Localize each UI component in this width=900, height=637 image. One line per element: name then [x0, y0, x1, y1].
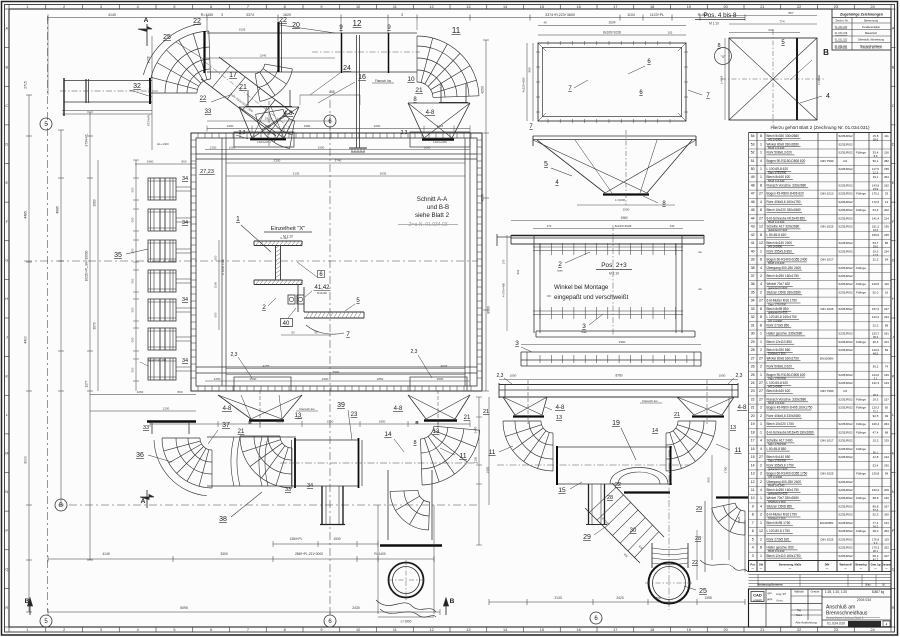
- svg-text:209: 209: [884, 488, 889, 492]
- support beam above funnels: [497, 373, 743, 398]
- svg-text:Benennung, Maße: Benennung, Maße: [779, 563, 802, 567]
- svg-text:Übersicht, Abmessung: Übersicht, Abmessung: [858, 38, 885, 42]
- svg-text:167: 167: [884, 505, 889, 509]
- roof curb top-right: [410, 132, 470, 147]
- svg-text:22: 22: [797, 628, 801, 632]
- svg-text:8: 8: [760, 315, 762, 319]
- svg-text:24: 24: [343, 65, 351, 72]
- svg-text:34,2: 34,2: [873, 525, 879, 529]
- svg-text:16: 16: [577, 5, 581, 9]
- panel pos 2+3 side angles: [534, 235, 682, 333]
- svg-text:500: 500: [131, 187, 135, 192]
- svg-text:2470: 2470: [474, 426, 478, 433]
- svg-text:8: 8: [760, 258, 762, 262]
- svg-text:162: 162: [884, 184, 889, 188]
- label pos 35: [114, 249, 148, 259]
- svg-text:4-8: 4-8: [426, 110, 435, 116]
- svg-text:N: N: [5, 490, 8, 494]
- svg-text:2135: 2135: [293, 172, 300, 176]
- svg-text:1177: 1177: [85, 380, 89, 387]
- svg-text:lose: lose: [557, 269, 563, 273]
- svg-text:E: E: [6, 181, 9, 185]
- svg-text:2500: 2500: [250, 377, 257, 381]
- svg-text:4: 4: [760, 488, 762, 492]
- svg-text:1960: 1960: [147, 160, 154, 164]
- funnel pos 4-8 top-left: [236, 101, 299, 146]
- svg-text:865: 865: [329, 90, 335, 94]
- svg-text:1: 1: [760, 249, 762, 253]
- svg-text:4: 4: [760, 505, 762, 509]
- svg-text:S235JRG2: S235JRG2: [838, 480, 853, 484]
- svg-text:Füllinge: Füllinge: [856, 208, 866, 212]
- svg-text:8760: 8760: [615, 374, 622, 378]
- svg-text:99: 99: [885, 472, 889, 476]
- duct elbow pos 14 turning down: [384, 426, 479, 530]
- svg-text:68,3: 68,3: [873, 554, 879, 558]
- svg-text:4+570=480: 4+570=480: [502, 282, 506, 297]
- svg-text:2500: 2500: [277, 420, 284, 424]
- svg-text:1424+R60: 1424+R60: [433, 140, 447, 144]
- svg-text:1980: 1980: [304, 124, 311, 128]
- svg-text:25: 25: [699, 588, 707, 595]
- svg-text:Füllinge: Füllinge: [856, 447, 866, 451]
- svg-text:13: 13: [466, 628, 470, 632]
- horizontal round duct pos 37/38: [207, 422, 296, 523]
- svg-text:eingepaßt und verschweißt: eingepaßt und verschweißt: [554, 294, 629, 301]
- funnel pos 4-8 top-right body: [401, 103, 470, 140]
- svg-text:774: 774: [779, 19, 784, 23]
- svg-text:4: 4: [137, 5, 139, 9]
- svg-text:21: 21: [674, 412, 680, 418]
- building plan outer wall: [191, 133, 482, 391]
- svg-text:41: 41: [751, 241, 755, 245]
- svg-text:43: 43: [751, 225, 755, 229]
- svg-text:11: 11: [459, 453, 466, 460]
- svg-text:45: 45: [751, 208, 755, 212]
- svg-text:6960: 6960: [333, 370, 340, 374]
- svg-text:260: 260: [884, 513, 889, 517]
- svg-text:DIN 7990: DIN 7990: [820, 159, 833, 163]
- svg-text:3: 3: [100, 628, 102, 632]
- svg-text:1: 1: [760, 496, 762, 500]
- svg-text:S235JRG2: S235JRG2: [838, 521, 853, 525]
- svg-text:24: 24: [751, 381, 755, 385]
- svg-text:A: A: [144, 17, 149, 24]
- svg-text:500: 500: [131, 307, 135, 312]
- svg-text:500: 500: [131, 367, 135, 372]
- svg-text:2,3: 2,3: [411, 349, 418, 355]
- svg-text:1690: 1690: [424, 145, 431, 149]
- svg-text:3200: 3200: [274, 159, 281, 163]
- svg-text:Bogen 45-R800-D406 620: Bogen 45-R800-D406 620: [767, 192, 804, 196]
- svg-text:Einzelheit "X": Einzelheit "X": [271, 226, 306, 232]
- svg-text:M 1:10: M 1:10: [609, 272, 619, 276]
- svg-text:3: 3: [582, 323, 586, 330]
- svg-text:Füllinge: Füllinge: [856, 291, 866, 295]
- section marker B bottom-right: [444, 598, 455, 615]
- right detail funnel left: [503, 380, 565, 424]
- svg-text:19: 19: [612, 420, 620, 427]
- svg-text:1905: 1905: [265, 117, 272, 121]
- svg-text:36,3: 36,3: [873, 393, 879, 397]
- svg-text:117,5: 117,5: [872, 167, 879, 171]
- svg-text:500: 500: [131, 337, 135, 342]
- svg-text:77,4: 77,4: [873, 521, 879, 525]
- svg-text:Ausschnitt 300: Ausschnitt 300: [148, 358, 167, 362]
- svg-text:A: A: [892, 27, 895, 31]
- svg-text:101: 101: [884, 340, 889, 344]
- hanger rod pos 12: [349, 35, 367, 152]
- svg-text:Blech 12x110 850: Blech 12x110 850: [767, 340, 793, 344]
- svg-text:25: 25: [751, 373, 755, 377]
- svg-text:29: 29: [696, 506, 702, 512]
- svg-text:Blech 8x160 620: Blech 8x160 620: [767, 389, 791, 393]
- svg-text:264: 264: [884, 422, 889, 426]
- svg-text:17,5: 17,5: [873, 253, 879, 257]
- svg-text:8000: 8000: [487, 306, 491, 314]
- duct stub into top-left funnel: [246, 90, 292, 107]
- vertical drop duct pos 34 below: [307, 483, 345, 525]
- svg-text:15: 15: [540, 628, 544, 632]
- svg-text:1: 1: [760, 340, 762, 344]
- svg-text:H: H: [892, 297, 895, 301]
- svg-text:S235JRG2: S235JRG2: [838, 455, 853, 459]
- svg-text:DIN 1017: DIN 1017: [820, 258, 833, 262]
- svg-text:157: 157: [884, 398, 889, 402]
- svg-text:2500: 2500: [623, 208, 630, 212]
- svg-text:13: 13: [466, 5, 470, 9]
- svg-text:28: 28: [607, 495, 613, 501]
- svg-text:Stk: Stk: [759, 563, 764, 567]
- svg-text:8: 8: [284, 628, 286, 632]
- svg-text:4140: 4140: [108, 13, 116, 17]
- bottom wall funnel left (pos 4-8): [218, 390, 302, 435]
- svg-text:1500: 1500: [318, 145, 325, 149]
- svg-text:12: 12: [430, 628, 434, 632]
- svg-text:85: 85: [885, 241, 889, 245]
- freeform break line bottom-left outlet: [376, 600, 436, 617]
- svg-text:Bl.: Bl.: [882, 583, 885, 587]
- corner elbow far right: [700, 498, 748, 573]
- svg-text:3: 3: [221, 13, 223, 17]
- svg-text:S235JRG2: S235JRG2: [838, 184, 853, 188]
- svg-text:P: P: [892, 529, 895, 533]
- svg-text:4: 4: [760, 266, 762, 270]
- svg-text:157,0: 157,0: [872, 307, 880, 311]
- svg-text:52: 52: [751, 151, 755, 155]
- svg-text:S235JRG2: S235JRG2: [838, 430, 853, 434]
- svg-text:10: 10: [356, 5, 360, 9]
- svg-text:36: 36: [136, 452, 144, 459]
- svg-text:Hierzu gehört Blatt 2 (Zeichnu: Hierzu gehört Blatt 2 (Zeichnung Nr. 01.…: [770, 125, 870, 130]
- svg-text:1: 1: [760, 373, 762, 377]
- svg-text:10: 10: [751, 496, 755, 500]
- dimension lines bottom-left assembly: [48, 537, 440, 624]
- svg-text:22: 22: [279, 17, 287, 24]
- svg-text:Flansch los: Flansch los: [642, 399, 658, 403]
- grid axis 5 (vertical dashed): [40, 16, 52, 627]
- svg-text:85,8: 85,8: [873, 505, 879, 509]
- svg-text:Bogen 90-R1150-D508 620: Bogen 90-R1150-D508 620: [767, 159, 806, 163]
- svg-text:92,5: 92,5: [873, 414, 879, 418]
- svg-text:15,8: 15,8: [873, 134, 879, 138]
- svg-text:1123+PL: 1123+PL: [650, 13, 664, 17]
- svg-text:Halter geschw. 330x2680: Halter geschw. 330x2680: [767, 332, 803, 336]
- svg-text:56,1: 56,1: [873, 450, 879, 454]
- svg-text:12,8: 12,8: [873, 455, 879, 459]
- svg-text:Rohr 406x5,6 160x1750: Rohr 406x5,6 160x1750: [767, 200, 801, 204]
- svg-text:52,3: 52,3: [873, 513, 879, 517]
- svg-text:7: 7: [247, 628, 249, 632]
- svg-text:Blech 10x220 1750: Blech 10x220 1750: [767, 422, 795, 426]
- svg-text:1060: 1060: [137, 390, 144, 394]
- left vertical dimension chains: [24, 36, 197, 612]
- svg-text:5740: 5740: [335, 159, 342, 163]
- note Ausschnitt 300: [140, 358, 167, 366]
- svg-text:146: 146: [884, 496, 889, 500]
- svg-text:1850: 1850: [377, 377, 384, 381]
- svg-text:Flansch los: Flansch los: [375, 79, 392, 83]
- svg-text:14: 14: [503, 5, 507, 9]
- svg-text:800: 800: [707, 477, 711, 482]
- svg-text:27: 27: [759, 381, 763, 385]
- labels pos 34: [182, 176, 188, 364]
- svg-text:24: 24: [871, 628, 875, 632]
- svg-text:S235JRG2: S235JRG2: [838, 373, 853, 377]
- svg-text:37: 37: [751, 274, 755, 278]
- svg-text:65x8 L=1240: 65x8 L=1240: [768, 483, 785, 487]
- svg-text:120,3: 120,3: [872, 406, 880, 410]
- svg-text:36,2: 36,2: [873, 335, 879, 339]
- svg-text:23: 23: [351, 412, 358, 418]
- svg-text:22: 22: [751, 398, 755, 402]
- svg-text:5: 5: [173, 5, 175, 9]
- svg-text:65x8 L=1240: 65x8 L=1240: [768, 261, 785, 265]
- svg-text:15: 15: [558, 487, 566, 494]
- svg-text:2: 2: [760, 348, 762, 352]
- svg-text:2: 2: [760, 274, 762, 278]
- dimension between top funnels: [300, 90, 360, 105]
- svg-text:3: 3: [515, 340, 519, 347]
- detail X I-beam column: [254, 236, 303, 285]
- svg-text:"X": "X": [721, 55, 726, 59]
- svg-text:500: 500: [131, 217, 135, 222]
- svg-text:34: 34: [182, 358, 188, 364]
- svg-text:Füllinge: Füllinge: [856, 430, 866, 434]
- svg-text:01.034.032: 01.034.032: [835, 26, 848, 29]
- title Pos. 4 bis 8: [695, 12, 745, 26]
- svg-text:31: 31: [751, 323, 755, 327]
- bottom dimension row under wall: [150, 420, 470, 427]
- svg-text:140,6: 140,6: [872, 348, 880, 352]
- svg-text:96,1: 96,1: [873, 159, 879, 163]
- svg-text:Stgn.1750/300: Stgn.1750/300: [768, 442, 787, 446]
- svg-text:DIN 1025: DIN 1025: [820, 537, 833, 541]
- svg-text:40: 40: [751, 249, 755, 253]
- svg-text:Gesamt: Gesamt: [882, 563, 892, 567]
- svg-text:22,2: 22,2: [873, 258, 879, 262]
- svg-text:1384+PL: 1384+PL: [290, 537, 303, 541]
- svg-text:Pos: Pos: [750, 563, 755, 567]
- svg-text:C: C: [892, 104, 895, 108]
- svg-text:DIN 1017: DIN 1017: [820, 439, 833, 443]
- svg-text:23: 23: [834, 628, 838, 632]
- svg-text:65x8 L=1240: 65x8 L=1240: [768, 549, 785, 553]
- svg-text:L=4000: L=4000: [615, 198, 625, 202]
- svg-text:74: 74: [885, 365, 889, 369]
- svg-text:Füllinge: Füllinge: [856, 406, 866, 410]
- duct elbow pos 11: [372, 26, 479, 103]
- svg-text:13: 13: [751, 472, 755, 476]
- svg-text:Füllinge: Füllinge: [856, 282, 866, 286]
- svg-text:64,6: 64,6: [873, 208, 879, 212]
- svg-text:8: 8: [760, 546, 762, 550]
- svg-text:C: C: [5, 104, 8, 108]
- svg-text:4-8: 4-8: [394, 406, 403, 412]
- svg-text:28,6: 28,6: [873, 138, 879, 142]
- drop shoe flange: [615, 482, 670, 493]
- svg-text:P: P: [6, 529, 9, 533]
- duct elbow pos 24/16: [255, 64, 366, 148]
- svg-text:G: G: [5, 258, 8, 262]
- svg-text:L 120-80-8 1750: L 120-80-8 1750: [767, 529, 791, 533]
- svg-text:IL 8440,1300: IL 8440,1300: [221, 258, 225, 275]
- svg-text:4: 4: [137, 628, 139, 632]
- svg-text:1428: 1428: [147, 56, 151, 63]
- svg-text:CAD: CAD: [753, 593, 762, 598]
- svg-text:1528: 1528: [239, 28, 246, 32]
- svg-text:2849+PL,221+3000: 2849+PL,221+3000: [295, 552, 323, 556]
- svg-text:Füllinge: Füllinge: [856, 422, 866, 426]
- svg-text:33: 33: [143, 425, 149, 431]
- detail Einzelheit X title: [264, 226, 312, 239]
- svg-text:4485: 4485: [24, 211, 28, 219]
- svg-text:38: 38: [751, 266, 755, 270]
- svg-text:S235JRG2: S235JRG2: [838, 282, 853, 286]
- svg-text:1: 1: [760, 151, 762, 155]
- svg-text:B: B: [823, 48, 829, 57]
- svg-text:S235JRG2: S235JRG2: [838, 398, 853, 402]
- svg-text:500: 500: [131, 278, 135, 283]
- svg-text:151,2: 151,2: [872, 225, 880, 229]
- svg-text:8: 8: [760, 208, 762, 212]
- svg-text:Rohr 273x5 850: Rohr 273x5 850: [767, 323, 790, 327]
- svg-text:S235JRG2: S235JRG2: [838, 505, 853, 509]
- svg-text:4: 4: [760, 439, 762, 443]
- svg-text:1024: 1024: [608, 21, 615, 25]
- svg-text:34: 34: [182, 297, 188, 303]
- svg-text:17: 17: [229, 72, 237, 79]
- svg-text:21: 21: [238, 429, 245, 435]
- svg-text:123,2: 123,2: [872, 315, 880, 319]
- svg-text:23: 23: [751, 389, 755, 393]
- svg-text:2,3: 2,3: [497, 373, 504, 379]
- svg-text:E: E: [892, 181, 895, 185]
- svg-text:DIN 7990: DIN 7990: [820, 389, 833, 393]
- svg-text:34: 34: [182, 220, 188, 226]
- svg-text:M16x60: M16x60: [317, 291, 327, 295]
- svg-text:2133: 2133: [554, 596, 562, 600]
- svg-text:J: J: [892, 336, 894, 340]
- svg-text:4.6: 4.6: [843, 389, 848, 393]
- svg-text:20: 20: [724, 628, 728, 632]
- svg-text:136: 136: [884, 225, 889, 229]
- svg-text:EN10056-: EN10056-: [820, 356, 834, 360]
- svg-text:1060: 1060: [227, 124, 234, 128]
- svg-text:962: 962: [516, 269, 520, 274]
- svg-text:8x106=1028: 8x106=1028: [603, 31, 621, 35]
- svg-text:2: 2: [760, 365, 762, 369]
- svg-text:980: 980: [528, 67, 532, 72]
- svg-text:49: 49: [885, 414, 889, 418]
- svg-text:2: 2: [760, 291, 762, 295]
- svg-text:DIN 1025: DIN 1025: [820, 225, 833, 229]
- svg-text:3374: 3374: [246, 13, 254, 17]
- svg-text:18: 18: [650, 5, 654, 9]
- interior dimension rows top: [199, 145, 470, 176]
- svg-text:10: 10: [356, 628, 360, 632]
- svg-text:S235JRG2: S235JRG2: [838, 307, 853, 311]
- svg-text:gekantet b=320: gekantet b=320: [768, 228, 788, 232]
- panel pos 2+3 title and notes: [547, 225, 632, 335]
- svg-text:L 80-65-8 620: L 80-65-8 620: [767, 233, 787, 237]
- svg-text:11: 11: [452, 26, 461, 35]
- svg-text:gekantet b=320: gekantet b=320: [768, 492, 788, 496]
- svg-text:640: 640: [768, 28, 773, 32]
- svg-text:t=5 L=2400: t=5 L=2400: [768, 475, 783, 479]
- svg-text:EL+1400: EL+1400: [157, 142, 169, 146]
- panel pos 2+3 dimensions: [502, 216, 705, 345]
- right detail funnel right: [640, 380, 747, 431]
- svg-text:16: 16: [751, 447, 755, 451]
- svg-text:3: 3: [100, 5, 102, 9]
- svg-text:4: 4: [752, 546, 754, 550]
- svg-text:R=1150: R=1150: [201, 13, 213, 17]
- svg-text:21: 21: [415, 87, 423, 94]
- svg-text:90: 90: [314, 331, 318, 335]
- svg-text:1250: 1250: [210, 145, 217, 149]
- svg-text:11: 11: [735, 447, 742, 454]
- svg-text:32: 32: [751, 315, 755, 319]
- svg-text:12: 12: [353, 19, 362, 28]
- svg-text:1424: 1424: [437, 124, 444, 128]
- svg-text:34: 34: [751, 299, 755, 303]
- support box 7: [148, 358, 191, 380]
- svg-text:1000: 1000: [214, 281, 218, 288]
- svg-text:27: 27: [759, 192, 763, 196]
- svg-text:1750: 1750: [724, 466, 728, 473]
- svg-text:E-3: E-3: [298, 416, 303, 420]
- svg-text:8: 8: [760, 323, 762, 327]
- support box 4: [148, 270, 191, 292]
- svg-text:7: 7: [247, 5, 249, 9]
- svg-text:Flansch Vorschw. 330x2680: Flansch Vorschw. 330x2680: [767, 184, 807, 188]
- svg-text:Q: Q: [892, 567, 895, 571]
- svg-text:27: 27: [759, 216, 763, 220]
- detail X gusset plate and bolts pos 41,42: [288, 285, 330, 313]
- svg-text:8: 8: [760, 134, 762, 138]
- svg-text:2,3: 2,3: [736, 373, 743, 379]
- svg-text:S235JRG2: S235JRG2: [838, 200, 853, 204]
- svg-text:t=5 L=2400: t=5 L=2400: [768, 385, 783, 389]
- svg-text:L: L: [6, 413, 8, 417]
- svg-text:163,2: 163,2: [872, 488, 880, 492]
- grid axis 6 (vertical dashed): [324, 100, 336, 627]
- panel pos 2+3 bolt row bottom: [533, 307, 683, 334]
- svg-text:235: 235: [884, 233, 889, 237]
- svg-text:DIN: DIN: [825, 563, 830, 567]
- svg-text:2715: 2715: [24, 81, 28, 89]
